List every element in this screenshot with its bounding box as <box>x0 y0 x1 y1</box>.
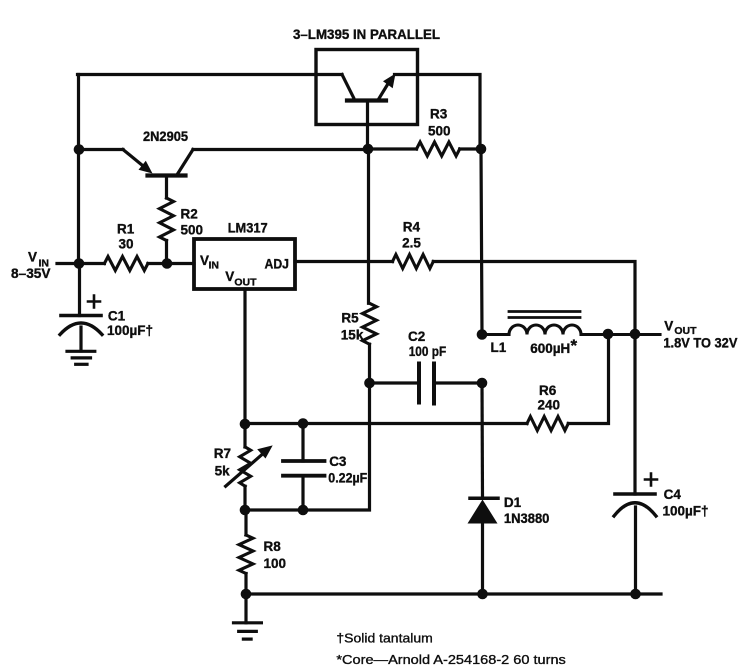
node: dot C4 bottom <box>630 589 641 600</box>
svg-text:R6: R6 <box>539 383 557 398</box>
svg-text:2N2905: 2N2905 <box>143 129 188 144</box>
node: dot C3 bottom <box>298 505 309 516</box>
inductor L1 <box>482 325 660 335</box>
svg-text:C3: C3 <box>329 454 347 469</box>
wire: R7/R8 link <box>244 510 247 535</box>
svg-text:R4: R4 <box>403 220 421 235</box>
wire: D1 anode to ground rail <box>481 524 484 595</box>
svg-text:1.8V TO 32V: 1.8V TO 32V <box>663 336 737 351</box>
resistor R2 <box>160 198 174 241</box>
svg-text:V: V <box>225 269 234 284</box>
svg-text:0.22µF: 0.22µF <box>328 471 367 486</box>
svg-text:R8: R8 <box>264 539 282 554</box>
node: dot L1 right / R6 <box>603 329 614 340</box>
wire: VIN stub to R1 <box>57 262 104 265</box>
svg-text:3–LM395 IN PARALLEL: 3–LM395 IN PARALLEL <box>293 27 440 42</box>
svg-text:600µH: 600µH <box>530 341 570 356</box>
svg-text:R1: R1 <box>117 222 135 237</box>
resistor R5 <box>363 303 377 344</box>
wire: R3 node down to L1 node <box>481 149 482 334</box>
wire: C2 node down to D1 <box>480 383 484 497</box>
svg-text:1N3880: 1N3880 <box>504 511 550 526</box>
svg-text:D1: D1 <box>504 495 522 510</box>
ground (below C1) <box>67 350 95 353</box>
node: dot R1/R2 junction <box>162 258 173 269</box>
resistor R8 <box>239 535 253 574</box>
node: dot R8 / ground rail <box>241 589 252 600</box>
svg-text:C1: C1 <box>108 309 126 324</box>
node: dot D1 bottom <box>477 589 488 600</box>
capacitor C1 <box>61 314 101 318</box>
svg-text:R3: R3 <box>430 107 448 122</box>
wire: 2N2905 base lead <box>165 176 168 199</box>
svg-text:R5: R5 <box>341 311 359 326</box>
capacitor C4 plus sign <box>645 474 657 486</box>
op-amp U2 LM317 box <box>194 239 295 289</box>
wire: LM395 emitter to right corner, down to R3 node <box>395 75 481 150</box>
capacitor C4 <box>615 492 655 496</box>
resistor R4 <box>393 255 434 269</box>
wire: ADJ to R4 <box>295 260 393 263</box>
resistor R1 <box>104 257 147 271</box>
potentiometer R7 arrow <box>226 455 262 487</box>
wire: C2 left lead <box>370 381 420 384</box>
svg-text:100: 100 <box>264 556 287 571</box>
wire: LM317 VOUT pin lead down <box>243 289 246 424</box>
wire: LM395 base vertical down to R5 <box>367 149 370 303</box>
node: dot VIN rail <box>74 258 85 269</box>
svg-text:C2: C2 <box>408 329 425 344</box>
svg-text:2.5: 2.5 <box>402 236 421 251</box>
wire: C4 to ground rail <box>634 507 637 594</box>
potentiometer R7 <box>240 447 251 486</box>
svg-text:L1: L1 <box>491 340 507 355</box>
wire: R6 right lead up to L1 right node <box>568 334 608 424</box>
svg-text:240: 240 <box>538 398 561 413</box>
svg-text:8–35V: 8–35V <box>11 266 51 281</box>
inductor L1 core bars <box>509 310 580 313</box>
capacitor C3 <box>283 459 325 463</box>
node: dot VOUT lead / R7 top <box>240 419 251 430</box>
svg-text:500: 500 <box>181 223 204 238</box>
wire: top rail from left corner to LM395 collector <box>78 73 343 76</box>
wire: R5 to C2 node <box>368 344 371 383</box>
wire: C3 top lead <box>301 424 304 462</box>
svg-text:*: * <box>571 336 578 355</box>
wire: R7 bottom lead <box>243 486 246 510</box>
capacitor C1 plus sign <box>88 296 100 308</box>
node: dot C2 right <box>477 378 488 389</box>
wire: R4 to output rail corner <box>433 262 635 335</box>
wire: left input rail vertical <box>77 75 80 264</box>
svg-text:500: 500 <box>428 124 451 139</box>
svg-text:C4: C4 <box>664 487 682 502</box>
transistor U1 (LM395) <box>342 75 354 98</box>
svg-text:V: V <box>664 319 673 334</box>
svg-text:†Solid tantalum: †Solid tantalum <box>336 631 432 646</box>
wire: R8 bottom lead <box>244 574 247 595</box>
wire: R5 node down and left to C3 bottom rail <box>245 383 370 510</box>
svg-text:IN: IN <box>209 260 220 272</box>
wire: output node down to C4 <box>633 334 636 494</box>
node: dot base junction <box>363 144 374 155</box>
svg-text:30: 30 <box>119 237 134 252</box>
node: dot output <box>630 329 641 340</box>
svg-text:100µF†: 100µF† <box>107 323 153 338</box>
wire: R2 bottom lead <box>165 241 168 264</box>
resistor R3 <box>417 142 460 156</box>
capacitor C2 <box>417 364 421 403</box>
svg-text:V: V <box>28 250 37 265</box>
svg-text:LM317: LM317 <box>228 221 268 236</box>
svg-text:OUT: OUT <box>234 276 257 288</box>
wire: C1 to ground <box>79 327 82 351</box>
wire: 2N2905 collector to LM395 base node <box>193 148 368 151</box>
svg-text:R7: R7 <box>214 446 231 461</box>
wire: C2 right lead <box>434 381 482 384</box>
transistor Q1 2N2905 <box>123 150 148 171</box>
wire: LM395 base lead <box>366 101 369 150</box>
wire: adj bus horizontal <box>245 422 527 425</box>
svg-text:R2: R2 <box>181 207 198 222</box>
node: dot R7 bottom <box>240 505 251 516</box>
wire: from left rail to 2N2905 emitter <box>79 148 123 151</box>
svg-text:100µF†: 100µF† <box>663 504 709 519</box>
wire: R7 top lead <box>243 424 246 447</box>
svg-text:ADJ: ADJ <box>265 257 290 272</box>
wire: ground rail <box>246 592 661 595</box>
ground (below R8) <box>244 594 247 623</box>
wire: VIN node down to C1 <box>78 264 81 316</box>
node: dot R5 bottom / C2 left <box>364 378 375 389</box>
wire: R1 to LM317 <box>148 262 194 265</box>
LM395 module box <box>316 50 418 125</box>
node: dot R3 right <box>476 144 487 155</box>
node: dot left rail / base wire <box>74 144 85 155</box>
svg-text:100 pF: 100 pF <box>409 344 447 359</box>
svg-text:5k: 5k <box>215 464 231 479</box>
node: dot C3 top <box>298 418 309 429</box>
wire: R3 to right node <box>460 147 481 150</box>
resistor R6 <box>527 417 568 431</box>
svg-text:*Core—Arnold A-254168-2 60 tur: *Core—Arnold A-254168-2 60 turns <box>336 652 566 667</box>
wire: base node to R3 <box>368 147 417 150</box>
node: dot L1 left <box>477 329 488 340</box>
diode D1 <box>470 497 498 501</box>
wire: C3 bottom lead <box>301 476 304 510</box>
